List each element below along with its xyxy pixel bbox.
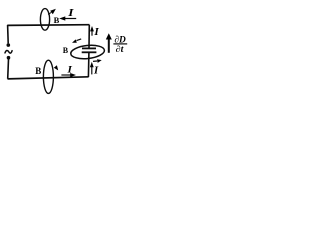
source terminal node upper (7, 43, 11, 47)
wire left vertical lower (7, 59, 10, 79)
svg-text:∂t: ∂t (116, 44, 124, 54)
B loop around bottom wire (43, 60, 53, 93)
current arrow up (below capacitor) (91, 66, 93, 74)
current arrow top wire (pointing left) (65, 18, 76, 20)
svg-text:B: B (54, 15, 60, 25)
capacitor top plate (82, 47, 96, 49)
svg-text:B: B (63, 46, 69, 55)
wire right vertical upper (88, 25, 90, 48)
wire top (7, 24, 89, 27)
svg-text:I: I (66, 65, 72, 75)
wire bottom (8, 77, 89, 79)
B loop around capacitor (tilted ellipse) (70, 44, 105, 60)
dD/dt fraction bar (113, 43, 127, 45)
source terminal node lower (7, 56, 11, 60)
bottom B loop arrowhead (54, 65, 58, 70)
svg-text:B: B (35, 66, 41, 76)
current arrow up (above capacitor) (91, 30, 93, 36)
capacitor loop left tangent arrow (77, 39, 82, 41)
wire right vertical lower (87, 53, 90, 77)
AC source tilde (5, 50, 12, 53)
capacitor bottom plate (82, 51, 97, 53)
displacement current arrow (bold up arrow) (108, 39, 110, 53)
B loop around top wire (40, 9, 49, 31)
capacitor loop right tangent arrow (93, 60, 97, 62)
current arrow bottom wire (pointing right) (61, 74, 70, 76)
wire left vertical upper (7, 25, 10, 43)
B loop top arrowhead (48, 12, 51, 14)
